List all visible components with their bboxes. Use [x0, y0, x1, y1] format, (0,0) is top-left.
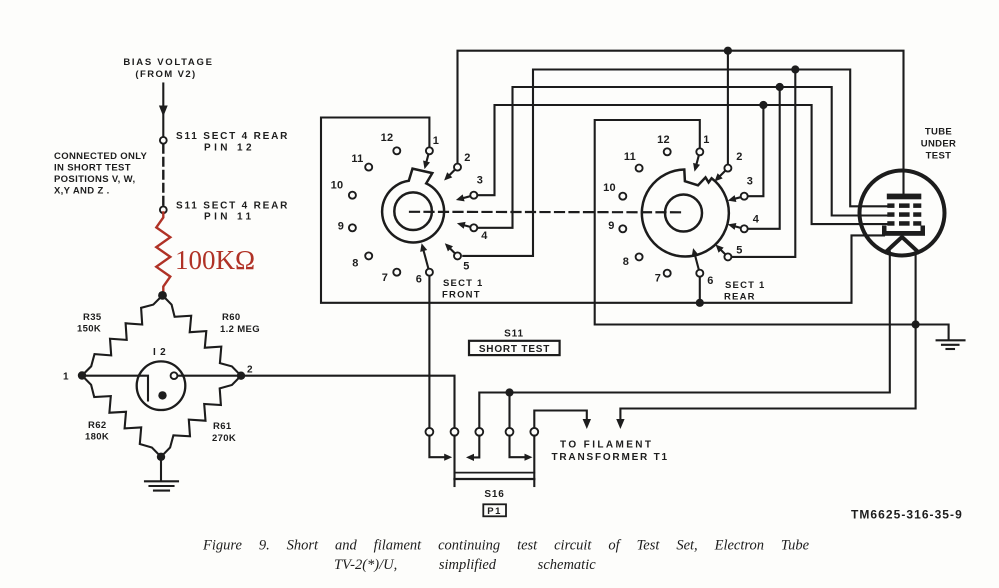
svg-text:3: 3 [747, 176, 753, 188]
resistor R60 [163, 295, 242, 375]
label connected only note [54, 151, 148, 197]
contact pin 3 S11 sect 1 front [456, 192, 477, 202]
contact pin 7 S11 sect 1 rear [664, 270, 671, 277]
terminal S11 sect 4 rear pin 12 [160, 137, 167, 144]
contact pin 11 S11 sect 1 rear [636, 165, 643, 172]
svg-text:12: 12 [657, 134, 670, 146]
wire loop C net (L4 to R4 to grid2) [478, 87, 888, 228]
label S11 SECT 4 REAR PIN 11 [176, 201, 289, 223]
svg-text:TEST: TEST [926, 151, 952, 162]
svg-text:12: 12 [381, 132, 394, 144]
contact pin 1 S11 sect 1 rear [693, 148, 703, 171]
svg-text:IN SHORT TEST: IN SHORT TEST [54, 163, 131, 174]
svg-text:2: 2 [464, 152, 470, 164]
wire S16 heater line to tube [479, 252, 890, 428]
svg-text:270K: 270K [212, 433, 236, 444]
pin number labels sect 1 rear [603, 134, 760, 287]
label S11 SECT 4 REAR PIN 12 [176, 131, 289, 154]
S16 slider bracket [455, 436, 535, 486]
junction dot R2 riser [724, 47, 732, 55]
contact pin 9 S11 sect 1 front [349, 224, 356, 231]
terminal S16 pin 4 [506, 428, 514, 436]
svg-text:11: 11 [624, 151, 636, 163]
wire switch enclosure net (contact L1 / bottom bus / cathode) [321, 118, 884, 303]
label R35 150K [77, 312, 102, 335]
wiper arrow S16 pin1 to pin2 [429, 436, 452, 461]
junction dot R5 riser [791, 65, 799, 73]
wire loop A net (L2 to R2 to plate) [458, 51, 904, 196]
contact pin 12 S11 sect 1 front [393, 147, 400, 154]
svg-text:4: 4 [481, 230, 488, 242]
svg-text:S11 SECT 4 REAR: S11 SECT 4 REAR [176, 131, 289, 142]
svg-text:R61: R61 [213, 421, 232, 432]
svg-text:R62: R62 [88, 420, 106, 431]
svg-text:BIAS VOLTAGE: BIAS VOLTAGE [123, 57, 213, 68]
wire ground net (R1 to ground) [595, 120, 949, 339]
junction dot cathode to ground line [912, 320, 920, 328]
svg-text:1: 1 [63, 372, 69, 383]
terminal S16 pin 1 [426, 428, 434, 436]
label R62 180K [85, 420, 109, 443]
contact pin 7 S11 sect 1 front [393, 269, 400, 276]
dashed shaft coupling line [410, 211, 683, 214]
wiper arrow S16 pin4 to pin5 [510, 436, 533, 461]
svg-text:1.2 MEG: 1.2 MEG [220, 324, 260, 335]
contact pin 4 S11 sect 1 rear [728, 223, 748, 232]
svg-text:9: 9 [338, 221, 344, 233]
label SECT 1 REAR [724, 280, 765, 303]
wire loop D net (L3 to R3 to grid3) [478, 105, 888, 224]
resistor 100K ohm (red) [156, 213, 170, 292]
wiper arrow S16 pin3 left [466, 436, 479, 461]
label TO FILAMENT TRANSFORMER T1 [552, 440, 669, 464]
label S11 [504, 329, 524, 340]
contact pin 2 S11 sect 1 rear [715, 165, 732, 182]
figure caption line 2 [334, 557, 596, 573]
svg-text:TUBE: TUBE [925, 127, 952, 138]
svg-text:POSITIONS V, W,: POSITIONS V, W, [54, 174, 135, 185]
node 1 (bridge left) [63, 371, 86, 382]
svg-text:10: 10 [603, 182, 616, 194]
contact pin 8 S11 sect 1 rear [636, 253, 643, 260]
svg-text:180K: 180K [85, 432, 109, 443]
wire dashed link pin12 to pin11 [162, 145, 164, 206]
terminal S16 pin 3 [475, 428, 483, 436]
junction dot R3 riser [759, 101, 767, 109]
contact pin 10 S11 sect 1 front [349, 192, 356, 199]
svg-text:CONNECTED ONLY: CONNECTED ONLY [54, 151, 148, 162]
contact pin 11 S11 sect 1 front [365, 164, 372, 171]
svg-text:7: 7 [382, 272, 388, 284]
svg-text:2: 2 [736, 151, 742, 163]
label BIAS VOLTAGE (FROM V2) [123, 57, 213, 80]
wire R5 branch [732, 73, 796, 257]
label SECT 1 FRONT [442, 278, 483, 301]
svg-text:REAR: REAR [724, 292, 756, 303]
svg-text:FRONT: FRONT [442, 290, 481, 301]
op: rotary switch S11 sect 1 front rotor [382, 169, 444, 243]
node bridge top junction [158, 291, 167, 300]
box SHORT TEST [469, 341, 560, 355]
svg-text:S16: S16 [484, 489, 504, 500]
svg-text:3: 3 [477, 175, 483, 187]
terminal S11 sect 4 rear pin 11 [160, 206, 167, 213]
ground (tube side) [937, 340, 965, 349]
contact pin 9 S11 sect 1 rear [619, 225, 626, 232]
contact pin 2 S11 sect 1 front [444, 164, 461, 181]
svg-text:X,Y AND Z .: X,Y AND Z . [54, 186, 110, 197]
svg-text:Figure 9. Short and filame: Figure 9. Short and filament continuing … [202, 538, 810, 554]
contact pin 12 S11 sect 1 rear [664, 148, 671, 155]
contact pin 1 S11 sect 1 front [423, 147, 433, 169]
label R60 1.2MEG [220, 312, 260, 335]
junction dot contact R6 on bottom bus [696, 299, 704, 307]
svg-text:SECT 1: SECT 1 [443, 278, 483, 289]
svg-text:6: 6 [707, 275, 713, 287]
svg-text:TRANSFORMER T1: TRANSFORMER T1 [552, 452, 669, 463]
wire contact L6 drop to S16 [428, 276, 430, 428]
junction dot S16 pin 4 riser [505, 388, 513, 427]
svg-text:TO FILAMENT: TO FILAMENT [560, 440, 653, 451]
label R61 270K [212, 421, 236, 444]
svg-text:5: 5 [463, 261, 469, 273]
svg-text:SHORT TEST: SHORT TEST [479, 344, 550, 355]
contact pin 5 S11 sect 1 front [445, 243, 461, 259]
resistor R62 [82, 376, 161, 457]
svg-text:9: 9 [608, 220, 614, 232]
resistor R35 [82, 295, 163, 375]
tube under test envelope [860, 171, 945, 256]
value label 100K ohm [175, 245, 255, 275]
svg-text:4: 4 [753, 214, 760, 226]
svg-text:R60: R60 [222, 312, 240, 323]
wire tube cathode to filament arrow [616, 251, 915, 430]
svg-text:(FROM V2): (FROM V2) [135, 69, 196, 80]
svg-text:I 2: I 2 [153, 347, 167, 358]
svg-text:8: 8 [352, 258, 358, 270]
svg-text:P1: P1 [487, 506, 502, 517]
svg-text:TM6625-316-35-9: TM6625-316-35-9 [851, 508, 963, 522]
contact pin 8 S11 sect 1 front [365, 252, 372, 259]
svg-text:100KΩ: 100KΩ [175, 245, 255, 275]
svg-text:11: 11 [351, 153, 363, 165]
wire bias voltage input [159, 84, 168, 137]
resistor R61 [161, 376, 241, 457]
wire R4 branch [748, 91, 780, 229]
svg-text:1: 1 [433, 135, 439, 147]
figure caption line 1 [202, 538, 810, 554]
contact pin 6 S11 sect 1 front [420, 243, 433, 276]
wire S16 pin 5 to filament arrow [534, 411, 591, 430]
contact pin 5 S11 sect 1 rear [716, 245, 732, 261]
label TUBE UNDER TEST [921, 127, 957, 162]
contact pin 6 S11 sect 1 rear [692, 248, 704, 277]
svg-text:1: 1 [703, 134, 709, 146]
wire contact R6 drop [699, 277, 701, 303]
svg-text:R35: R35 [83, 312, 102, 323]
label S16 [484, 489, 504, 500]
label I2 [153, 347, 167, 358]
svg-text:6: 6 [416, 274, 422, 286]
terminal S16 pin 5 [530, 428, 538, 436]
tube heater triangle [886, 237, 918, 252]
svg-text:8: 8 [623, 256, 629, 268]
svg-text:TV-2(*)/U, simplified schema: TV-2(*)/U, simplified schematic [334, 557, 596, 573]
svg-text:S11 SECT 4 REAR: S11 SECT 4 REAR [176, 201, 289, 212]
contact pin 10 S11 sect 1 rear [619, 193, 626, 200]
wire loop B net (L5 to R5 to grid1) [463, 70, 888, 256]
svg-text:UNDER: UNDER [921, 139, 957, 150]
terminal S16 pin 2 [451, 428, 459, 436]
meter jack I2 [86, 361, 237, 410]
svg-text:2: 2 [247, 365, 253, 376]
node bridge bottom junction [157, 453, 165, 461]
node 2 (bridge right) [237, 365, 254, 380]
pin number labels sect 1 front [331, 132, 489, 286]
junction dot R4 riser [776, 83, 784, 91]
svg-text:10: 10 [331, 180, 344, 192]
svg-text:150K: 150K [77, 324, 101, 335]
contact pin 3 S11 sect 1 rear [728, 193, 748, 202]
svg-text:7: 7 [655, 273, 661, 285]
svg-text:PIN 12: PIN 12 [204, 143, 255, 154]
wire R2 branch [727, 54, 729, 164]
svg-text:5: 5 [736, 245, 742, 257]
rotary switch S11 sect 1 rear rotor [642, 170, 729, 257]
ground (bridge) [145, 459, 178, 491]
svg-text:S11: S11 [504, 329, 524, 340]
box P1 [483, 504, 506, 517]
svg-text:SECT 1: SECT 1 [725, 280, 765, 291]
svg-text:PIN 11: PIN 11 [204, 212, 254, 223]
tube cathode bracket [882, 226, 925, 236]
wire node 2 to S16 contact 2 [245, 376, 455, 428]
tube plate bar [887, 194, 922, 200]
wire R3 branch [748, 109, 764, 197]
label TM6625-316-35-9 [851, 508, 963, 522]
tube grid rows [887, 203, 921, 225]
contact pin 4 S11 sect 1 front [457, 222, 477, 231]
